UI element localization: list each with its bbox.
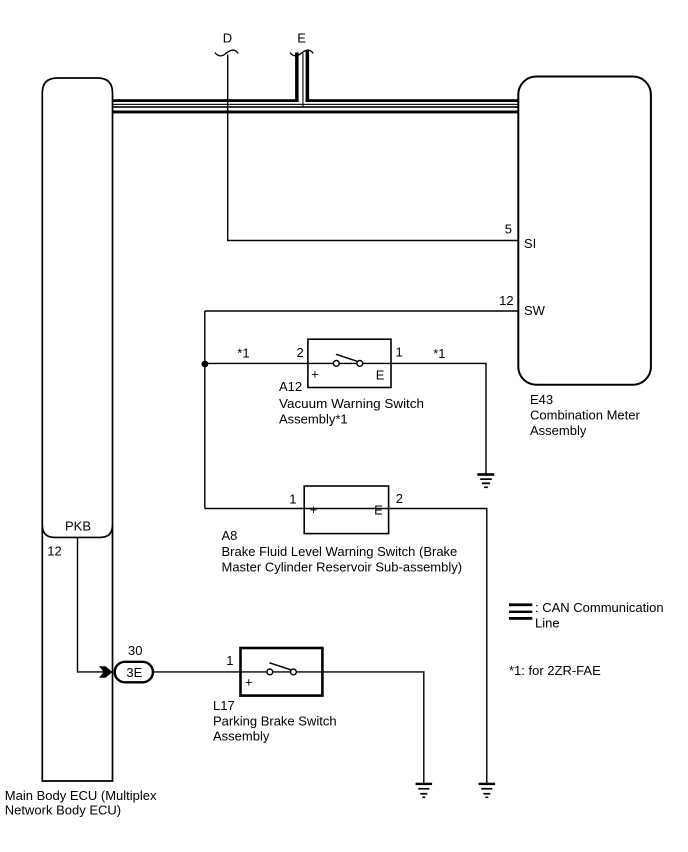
wire PKB pin 12 down and right xyxy=(78,537,113,672)
svg-text:+: + xyxy=(311,367,319,382)
wire E CAN pair middle thin xyxy=(302,53,303,107)
switch L17 contact right xyxy=(291,669,297,675)
wire E CAN pair left xyxy=(295,53,299,103)
svg-text:+: + xyxy=(310,502,318,517)
svg-text:Assembly*1: Assembly*1 xyxy=(279,411,348,426)
svg-text:E: E xyxy=(376,367,385,382)
svg-text:30: 30 xyxy=(128,643,142,658)
wire D down xyxy=(227,55,229,241)
ECU U1 Main Body ECU outline xyxy=(42,78,112,781)
svg-text:Main Body ECU (Multiplex: Main Body ECU (Multiplex xyxy=(5,788,157,803)
wire SI xyxy=(227,240,518,242)
wire to A12 pin 2 xyxy=(205,362,308,364)
svg-text:+: + xyxy=(245,675,253,690)
svg-text:Assembly: Assembly xyxy=(213,729,270,744)
switch A12 box xyxy=(308,339,391,387)
svg-text:: CAN Communication: : CAN Communication xyxy=(535,600,664,615)
wire L17 to ground run xyxy=(322,672,423,783)
ground G2 (L17) xyxy=(416,783,433,798)
junction node at A12 branch xyxy=(202,361,209,368)
connector 3E oval xyxy=(115,662,153,683)
switch A12 contact left xyxy=(333,361,339,367)
svg-text:1: 1 xyxy=(226,653,233,668)
svg-text:*1: *1 xyxy=(237,346,249,361)
switch A12 blade xyxy=(336,354,358,361)
wire A8 pin 2 to ground xyxy=(389,509,487,783)
CAN bus line 2 (thin) xyxy=(113,104,519,105)
connector arrow into 3E xyxy=(99,666,112,677)
wire A12 pin 1 to ground xyxy=(391,363,486,473)
svg-text:*1: for 2ZR-FAE: *1: for 2ZR-FAE xyxy=(509,663,601,678)
switch A12 contact right xyxy=(357,361,363,367)
svg-text:L17: L17 xyxy=(213,698,235,713)
svg-text:Line: Line xyxy=(535,616,560,631)
svg-text:Network Body ECU): Network Body ECU) xyxy=(5,803,121,818)
svg-text:12: 12 xyxy=(499,293,513,308)
svg-text:A12: A12 xyxy=(279,379,302,394)
svg-text:SI: SI xyxy=(524,236,536,251)
ground G1 (A12) xyxy=(477,473,494,488)
svg-text:Assembly: Assembly xyxy=(530,423,587,438)
legend CAN icon xyxy=(509,603,532,619)
wire through A12 xyxy=(308,362,391,364)
wire E CAN pair right xyxy=(306,50,310,102)
CAN bus line 3 (thin) xyxy=(113,106,519,108)
svg-text:Master Cylinder Reservoir Sub-: Master Cylinder Reservoir Sub-assembly) xyxy=(222,560,463,575)
ECU inner PKB compartment bottom edge xyxy=(42,525,112,537)
svg-text:1: 1 xyxy=(396,345,403,360)
svg-text:5: 5 xyxy=(505,222,512,237)
wire through L17 xyxy=(241,671,323,673)
svg-text:Combination Meter: Combination Meter xyxy=(530,408,640,423)
connector D break squiggle xyxy=(215,50,238,56)
switch L17 box xyxy=(241,648,323,696)
svg-text:Vacuum Warning Switch: Vacuum Warning Switch xyxy=(279,396,424,411)
svg-text:SW: SW xyxy=(524,303,546,318)
svg-text:3E: 3E xyxy=(126,665,142,680)
svg-text:D: D xyxy=(223,31,232,46)
switch L17 blade xyxy=(270,663,292,670)
switch A8 box xyxy=(304,486,388,534)
wire SW from E43 to left loop xyxy=(205,310,519,312)
svg-text:2: 2 xyxy=(396,491,403,506)
svg-text:E: E xyxy=(374,502,383,517)
CAN bus line 4 (thick) xyxy=(113,111,519,114)
svg-text:1: 1 xyxy=(289,492,296,507)
svg-text:Parking Brake Switch: Parking Brake Switch xyxy=(213,713,337,728)
connector E break squiggle xyxy=(290,50,313,56)
svg-text:2: 2 xyxy=(296,345,303,360)
wire left loop to A8 pin 1 xyxy=(205,508,304,510)
svg-text:PKB: PKB xyxy=(65,518,91,533)
meter E43 Combination Meter box xyxy=(518,77,651,385)
ground G3 (A8) xyxy=(479,783,496,798)
svg-text:E: E xyxy=(297,30,306,45)
switch L17 contact left xyxy=(267,669,273,675)
wire left loop vertical xyxy=(204,311,206,509)
wire 3E to L17 xyxy=(153,671,240,673)
svg-text:E43: E43 xyxy=(530,392,553,407)
wire through A8 xyxy=(304,508,388,510)
svg-text:*1: *1 xyxy=(433,346,445,361)
svg-text:A8: A8 xyxy=(222,528,238,543)
CAN bus line 1 (thick, gap at E join) xyxy=(113,99,299,102)
svg-text:Brake Fluid Level Warning Swit: Brake Fluid Level Warning Switch (Brake xyxy=(222,544,458,559)
svg-text:12: 12 xyxy=(47,543,61,558)
